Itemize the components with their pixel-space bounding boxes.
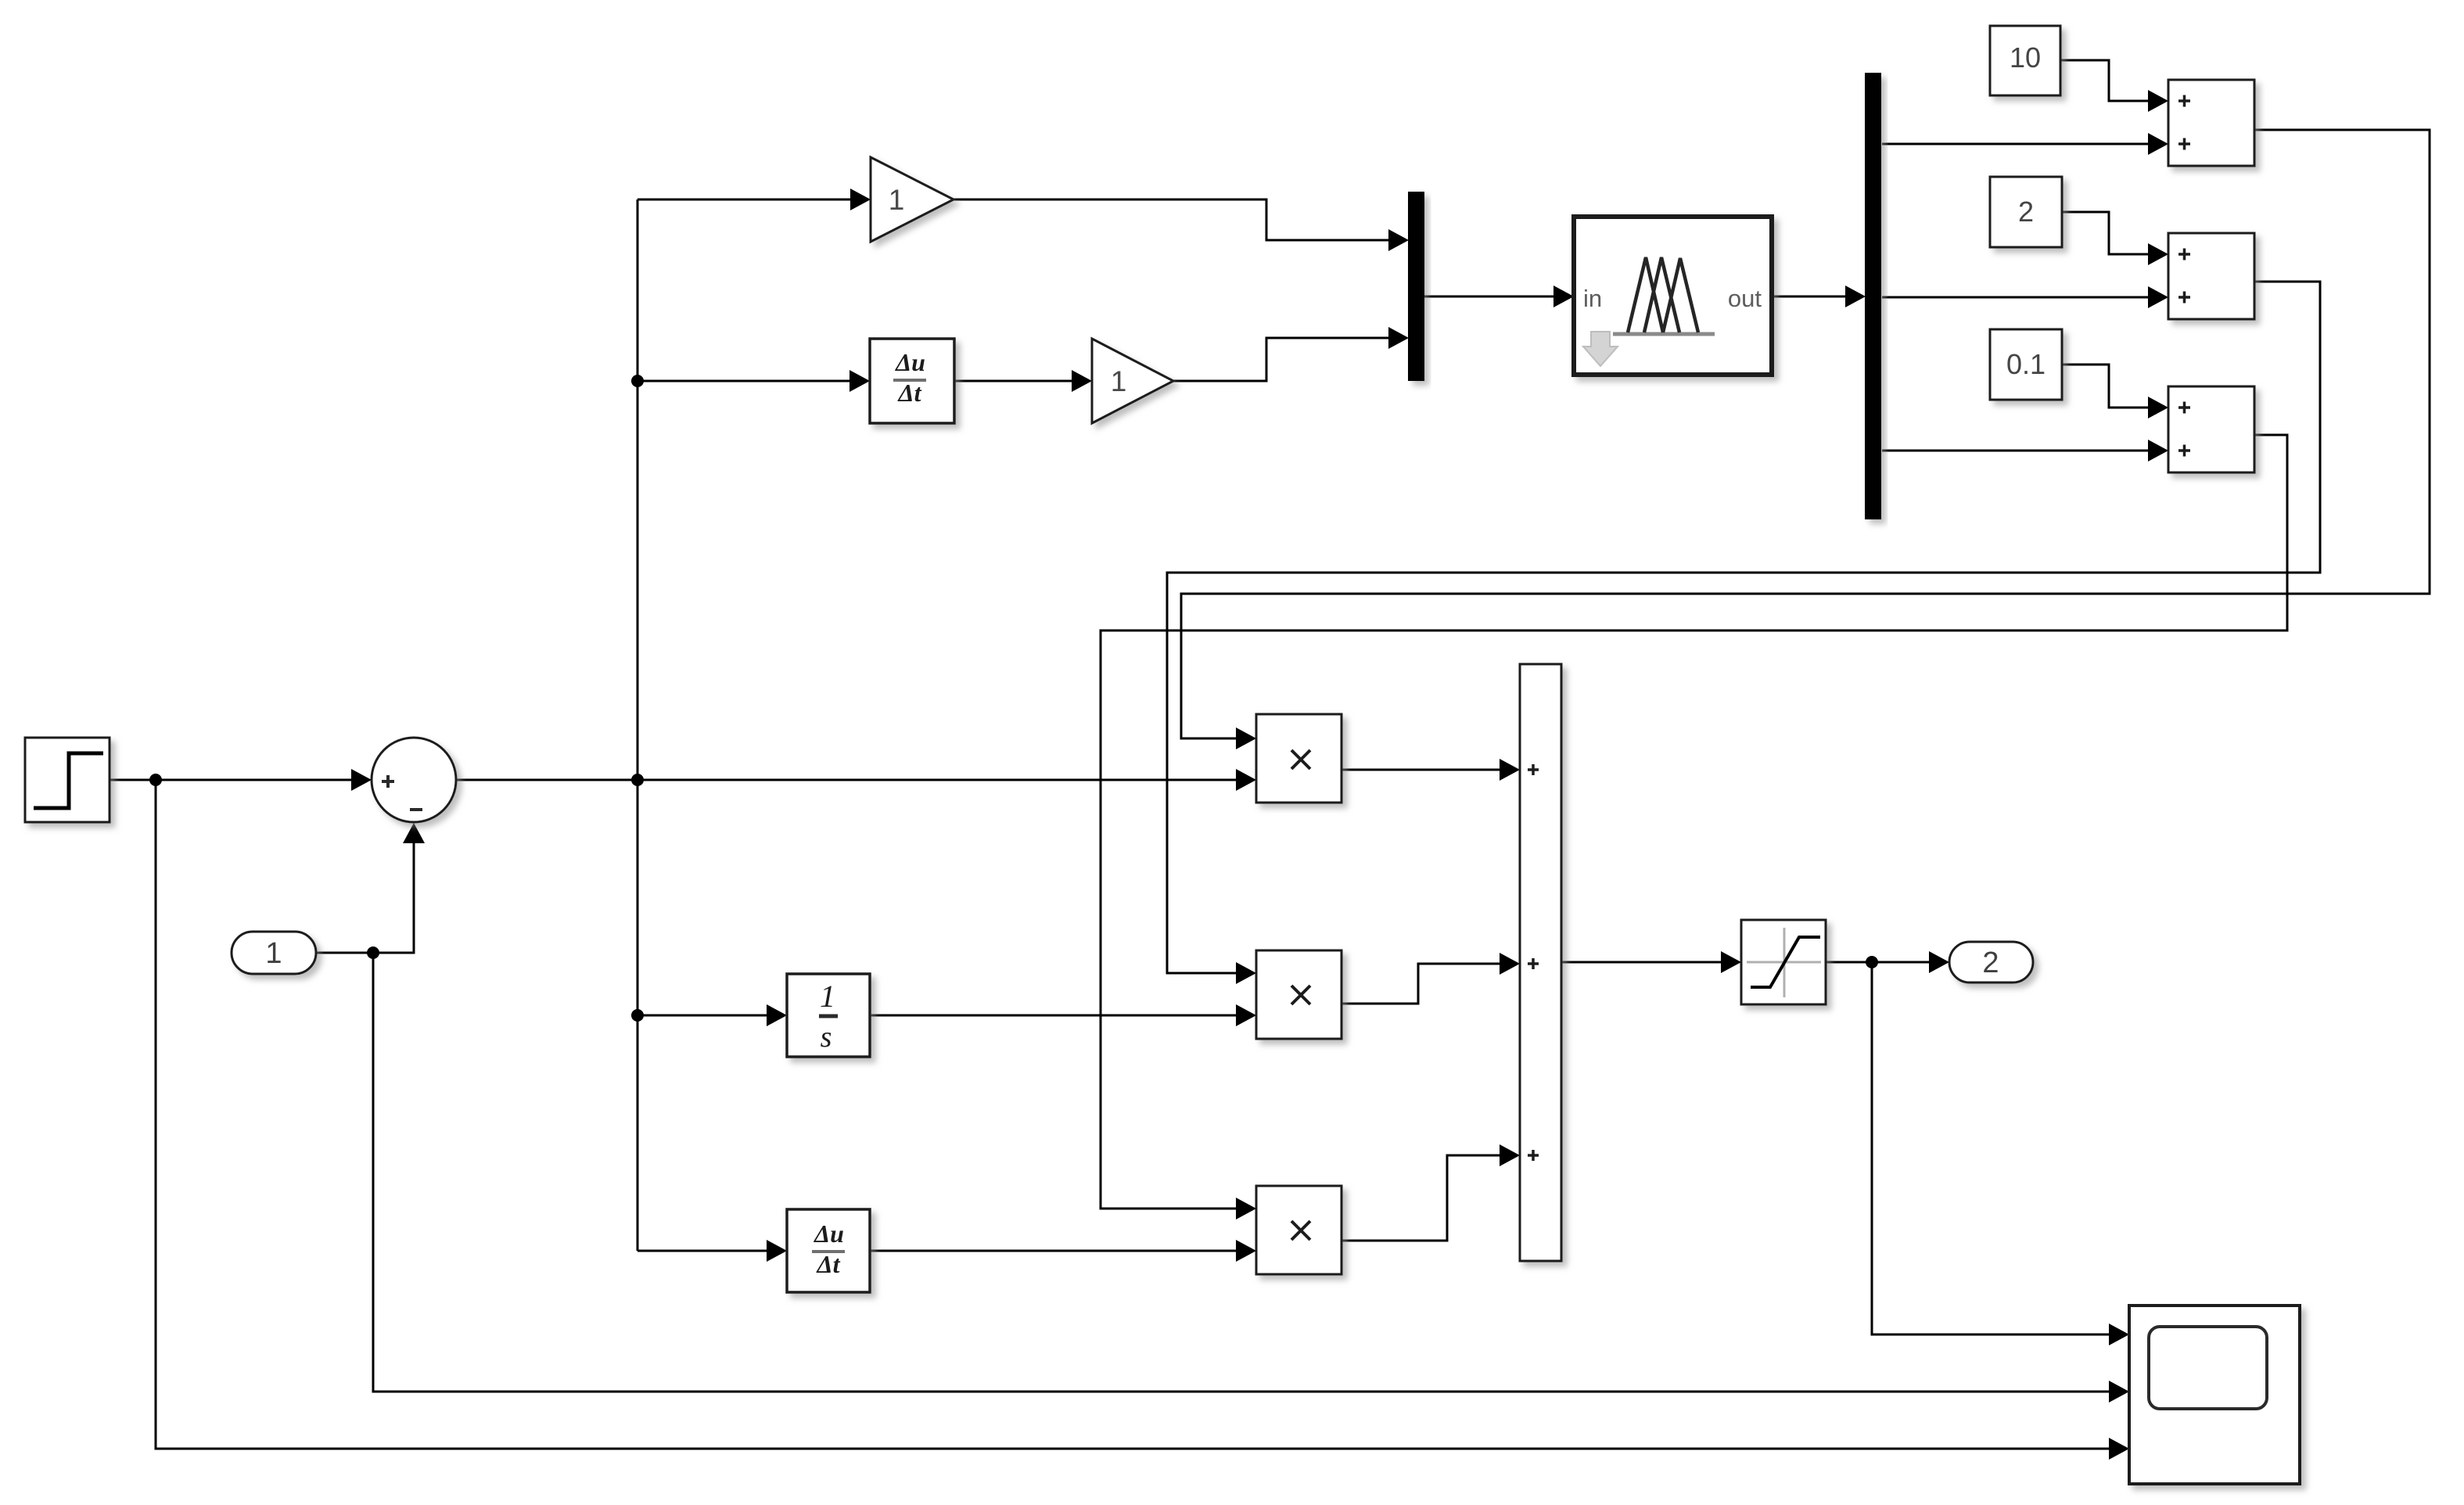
arrow into scope in2 xyxy=(2109,1381,2129,1403)
fuzzy membership icon xyxy=(1613,332,1715,336)
step source block xyxy=(25,738,110,822)
saturation block xyxy=(1741,920,1826,1004)
wire gain G1 out to mux in1 xyxy=(954,199,1390,240)
arrow into add A3 in1 xyxy=(2148,397,2168,418)
svg-text:out: out xyxy=(1728,285,1762,312)
wire demux out3 to add A3 in2 xyxy=(1882,450,2150,452)
arrow into integrator xyxy=(767,1004,787,1026)
junction branch to integrator xyxy=(631,1009,644,1022)
derivative D2 du/dt xyxy=(787,1209,870,1292)
svg-text:0.1: 0.1 xyxy=(2006,348,2046,380)
outport 2 xyxy=(1949,942,2033,982)
product P1 xyxy=(1256,714,1342,803)
svg-text:in: in xyxy=(1583,285,1602,312)
wire add A3 out feedback to product P3 in1 xyxy=(1101,435,2287,1209)
inport 1 xyxy=(232,932,316,974)
gain G1 xyxy=(871,157,954,242)
arrow into add A2 in1 xyxy=(2148,243,2168,265)
arrow into derivative D1 xyxy=(849,370,870,392)
arrow into product P3 in2 xyxy=(1236,1240,1256,1262)
arrow into add A2 in2 xyxy=(2148,286,2168,308)
wire branch to derivative D1 xyxy=(638,380,851,383)
wire inport1 branch down to scope in2 xyxy=(373,953,2110,1392)
wire integrator out to product P2 in2 xyxy=(870,1015,1237,1017)
wire constant 2 to add A2 in1 xyxy=(2062,212,2150,254)
arrow into sumvec in3 xyxy=(1500,1144,1520,1166)
wire gain G2 out to mux in2 xyxy=(1173,338,1390,381)
wire fuzzy out to demux xyxy=(1772,296,1847,298)
svg-text:10: 10 xyxy=(2010,41,2041,74)
wire e-signal sum out to product P1 in2 xyxy=(456,779,1237,781)
arrow into sumvec in2 xyxy=(1500,953,1520,975)
ARROWHEADS xyxy=(351,90,2168,1460)
arrow into product P2 in2 xyxy=(1236,1004,1256,1026)
arrow into product P1 in2 xyxy=(1236,769,1256,791)
arrow into mux in1 xyxy=(1388,229,1409,251)
add A2 xyxy=(2168,233,2254,319)
wire add A1 out feedback to product P1 in1 xyxy=(1181,130,2430,738)
arrow into gain G2 xyxy=(1072,370,1092,392)
arrow into scope in3 xyxy=(2109,1438,2129,1460)
arrow into product P2 in1 xyxy=(1236,962,1256,984)
constant 2 xyxy=(1990,177,2062,247)
arrow into sum circle left xyxy=(351,769,372,791)
junction branch to derivative D1 xyxy=(631,375,644,387)
svg-text:Δu: Δu xyxy=(894,348,925,376)
svg-text:s: s xyxy=(821,1021,832,1054)
arrow into demux xyxy=(1845,286,1866,307)
svg-text:1: 1 xyxy=(1111,365,1127,397)
sum circle xyxy=(372,738,456,822)
constant 0.1 xyxy=(1990,329,2062,400)
wire product P2 out to sumvec in2 xyxy=(1342,964,1501,1004)
wire branch to derivative D2 xyxy=(638,1250,768,1252)
wire constant 10 to add A1 in1 xyxy=(2060,60,2150,101)
svg-text:Δu: Δu xyxy=(813,1219,844,1248)
integrator 1/s xyxy=(787,974,870,1057)
wire mux out to fuzzy in xyxy=(1424,296,1555,298)
svg-text:1: 1 xyxy=(265,937,282,970)
wire demux out2 to add A2 in2 xyxy=(1882,296,2150,299)
arrow into mux in2 xyxy=(1388,327,1409,349)
wire constant 0.1 to add A3 in1 xyxy=(2062,365,2150,408)
wire saturation branch down to scope in1 xyxy=(1872,962,2110,1334)
wire derivative D1 out to gain G2 xyxy=(954,380,1073,383)
arrow into saturation xyxy=(1721,951,1741,973)
arrow into scope in1 xyxy=(2109,1324,2129,1345)
wire demux out1 to add A1 in2 xyxy=(1882,143,2150,145)
scope block xyxy=(2129,1306,2300,1484)
mux bar xyxy=(1408,192,1424,381)
junction on step output xyxy=(149,774,162,786)
svg-text:2: 2 xyxy=(2018,196,2034,228)
sumvec vertical add block xyxy=(1520,664,1561,1261)
add A3 xyxy=(2168,386,2254,472)
add A1 xyxy=(2168,80,2254,166)
product P2 xyxy=(1256,950,1342,1039)
constant 10 xyxy=(1990,26,2060,95)
fuzzy logic controller block xyxy=(1574,217,1772,375)
junction on inport1 line xyxy=(367,946,379,959)
wire branch to integrator 1/s xyxy=(638,1015,768,1017)
derivative D1 du/dt xyxy=(870,339,954,423)
wire branch to gain G1 xyxy=(638,199,852,201)
arrow into product P1 in1 xyxy=(1236,727,1256,749)
arrow up into sum circle bottom xyxy=(403,823,425,843)
wire inport1 to sum circle bottom xyxy=(316,843,414,953)
product P3 xyxy=(1256,1186,1342,1274)
arrow into derivative D2 xyxy=(767,1240,787,1262)
svg-text:2: 2 xyxy=(1982,946,1999,979)
wire e-branch vertical xyxy=(637,199,639,1251)
arrow into add A1 in1 xyxy=(2148,90,2168,112)
wire step branch down to scope in3 xyxy=(156,780,2110,1449)
wire add A2 out feedback to product P2 in1 xyxy=(1167,282,2320,973)
arrow into gain G1 xyxy=(850,189,871,210)
wire saturation out to outport 2 xyxy=(1826,961,1931,964)
svg-text:Δt: Δt xyxy=(897,379,922,407)
arrow into product P3 in1 xyxy=(1236,1198,1256,1219)
arrow into add A1 in2 xyxy=(2148,133,2168,155)
fuzzy gray down-arrow xyxy=(1583,332,1618,366)
gain G2 xyxy=(1092,339,1173,423)
junction branch at e-line xyxy=(631,774,644,786)
wire step to sum circle xyxy=(110,779,352,781)
wire product P3 out to sumvec in3 xyxy=(1342,1155,1501,1241)
svg-text:1: 1 xyxy=(889,184,905,216)
arrow into outport 2 xyxy=(1929,951,1949,973)
arrow into sumvec in1 xyxy=(1500,759,1520,781)
wire sumvec out to saturation xyxy=(1561,961,1722,964)
arrow into add A3 in2 xyxy=(2148,440,2168,462)
junction after saturation xyxy=(1866,956,1878,968)
wire derivative D2 out to product P3 in2 xyxy=(870,1250,1237,1252)
demux bar xyxy=(1865,73,1881,519)
svg-text:1: 1 xyxy=(820,979,835,1014)
svg-text:Δt: Δt xyxy=(816,1250,841,1278)
arrow into fuzzy in xyxy=(1553,286,1574,307)
wire product P1 out to sumvec in1 xyxy=(1342,769,1501,771)
